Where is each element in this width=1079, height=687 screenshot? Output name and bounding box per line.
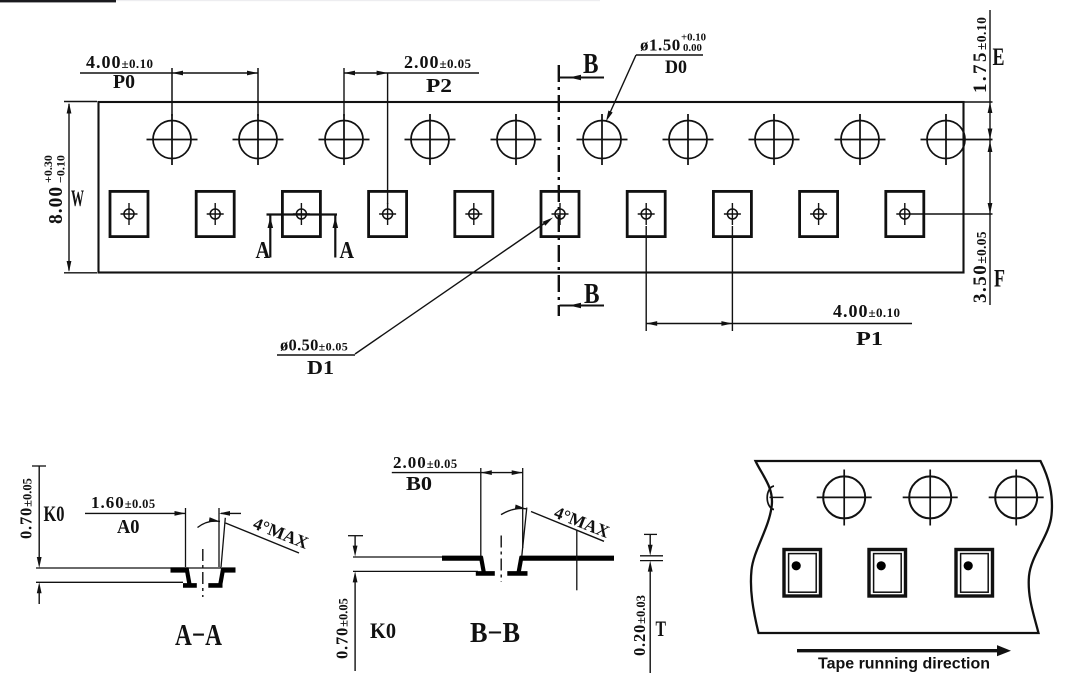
dimension P2 extension lines: [343, 68, 345, 116]
svg-text:F: F: [994, 266, 1005, 293]
callout D0 leader with arrow: [609, 55, 637, 116]
tape sketch torn outline: [751, 461, 1052, 633]
dimension P0 extension lines: [171, 68, 173, 116]
section arrow B top: [560, 77, 605, 79]
svg-text:A: A: [340, 237, 355, 264]
svg-text:−0.10: −0.10: [54, 155, 68, 183]
svg-text:T: T: [656, 616, 667, 641]
tape sketch sprocket hole 1: [817, 470, 872, 526]
section B-B B0 extension lines: [480, 468, 482, 556]
svg-text:0.70±0.05: 0.70±0.05: [333, 598, 352, 659]
tape sketch sprocket hole 2: [903, 470, 958, 526]
section A-A angle leader: [226, 523, 300, 553]
dimension P1 line with arrows: [646, 323, 912, 325]
sprocket hole 3: [319, 114, 370, 165]
section A-A angle arc with arrow: [198, 521, 221, 527]
svg-text:B0: B0: [406, 474, 432, 495]
svg-text:ø0.50±0.05: ø0.50±0.05: [280, 336, 348, 355]
svg-text:Tape running direction: Tape running direction: [818, 656, 990, 673]
sprocket hole 1: [147, 114, 198, 165]
svg-text:4°MAX: 4°MAX: [251, 513, 312, 553]
dimension W text 8.00 +0.30/-0.10 (rotated): [41, 155, 68, 224]
section A-A K0 dimension tick: [32, 465, 46, 467]
section B-B K0 text 0.70+-0.05 (rotated): [333, 598, 352, 659]
sprocket hole 10: [921, 114, 993, 165]
component pocket 2: [196, 191, 234, 236]
dimension P0 line with arrows: [80, 72, 258, 74]
section B-B tape profile (thick): [442, 556, 483, 561]
section A-A text 4 deg MAX: [251, 513, 312, 553]
svg-text:2.00±0.05: 2.00±0.05: [393, 453, 458, 472]
scan artifact bar top-left: [0, 0, 600, 1]
section arrow B bottom: [560, 305, 605, 307]
svg-text:D1: D1: [307, 358, 334, 379]
svg-text:0.00: 0.00: [683, 42, 702, 54]
component pocket 5: [455, 191, 493, 236]
section B-B B0 dimension line with arrows: [392, 472, 523, 474]
section cut line B-B (dashed): [558, 65, 560, 316]
dimension F arrows: [988, 141, 993, 152]
svg-text:4.00±0.10: 4.00±0.10: [833, 301, 900, 321]
svg-text:1.75±0.10: 1.75±0.10: [970, 17, 991, 93]
section A-A K0 dimension line with arrows: [38, 466, 40, 557]
svg-text:K0: K0: [44, 501, 65, 526]
tape sketch pocket 3 with component: [956, 550, 993, 597]
svg-text:A0: A0: [117, 517, 140, 538]
component pocket 6: [541, 191, 579, 236]
section A-A tape profile (thick): [171, 567, 189, 572]
component pocket 1: [110, 191, 148, 236]
section B-B pocket center line: [500, 536, 502, 583]
section B-B tape top surface line: [353, 556, 445, 558]
sprocket hole 5: [491, 114, 542, 165]
tape sketch pocket 2 with component: [869, 550, 906, 597]
dimension F text 3.50+-0.05 (rotated): [970, 231, 991, 303]
callout D0 underline: [636, 54, 703, 56]
section B-B T text 0.20+-0.03 (rotated): [630, 595, 649, 656]
svg-text:B: B: [584, 279, 600, 310]
svg-text:B: B: [583, 49, 599, 80]
svg-text:D0: D0: [665, 57, 687, 78]
section A-A A0 extension lines: [185, 508, 187, 567]
tape sketch sprocket hole 3: [989, 470, 1044, 526]
dimension P2 line with arrows: [344, 72, 479, 74]
svg-text:8.00: 8.00: [46, 186, 67, 224]
section B-B angle arc with arrow: [501, 508, 526, 514]
dimension E-F vertical line: [989, 10, 991, 305]
component pocket 9: [800, 191, 838, 236]
component pocket 4: [369, 191, 407, 236]
dimension E text 1.75+-0.10 (rotated): [970, 17, 991, 93]
section B-B text 4 deg MAX: [552, 502, 613, 542]
sprocket hole 8: [749, 114, 800, 165]
sprocket hole 9: [835, 114, 886, 165]
sprocket hole 2: [233, 114, 284, 165]
section cut marker A-A: [267, 213, 338, 215]
section B-B D1 hole gap in pocket bottom: [495, 570, 508, 578]
section A-A D1 hole gap in pocket bottom: [197, 582, 209, 590]
component pocket 10: [886, 191, 993, 236]
component pocket 3: [282, 191, 320, 236]
svg-text:W: W: [71, 186, 84, 211]
dimension P1 extension lines: [645, 226, 647, 331]
component pocket 7: [627, 191, 665, 236]
dimension E arrows: [988, 102, 993, 113]
section B-B T dimension line with arrows: [649, 534, 651, 545]
svg-text:P2: P2: [426, 76, 452, 97]
section A-A tape top surface line: [36, 567, 221, 569]
svg-text:B−B: B−B: [470, 617, 520, 649]
component pocket 8: [713, 191, 751, 236]
section A-A A0 dimension line with arrows: [85, 512, 186, 514]
dimension W ticks: [64, 101, 97, 103]
svg-text:4.00±0.10: 4.00±0.10: [86, 52, 153, 72]
svg-text:ø1.50: ø1.50: [640, 36, 681, 55]
section B-B K0 dimension line with arrows: [354, 536, 356, 546]
sprocket hole 7: [663, 114, 714, 165]
section B-B K0 dimension tick: [348, 535, 363, 537]
svg-text:A: A: [256, 237, 271, 264]
carrier tape outline (top view): [99, 102, 964, 273]
tape top edge extension to E dimension: [964, 101, 993, 103]
tape running direction arrow: [797, 649, 999, 652]
tape sketch partial sprocket hole at torn edge: [767, 486, 774, 510]
tape sketch pocket 1 with component: [784, 550, 821, 597]
sprocket hole 4: [405, 114, 456, 165]
section A-A K0 text 0.70+-0.05 (rotated): [17, 478, 36, 539]
svg-text:3.50±0.05: 3.50±0.05: [970, 231, 991, 303]
section B-B sprocket hole center line: [576, 530, 578, 591]
sprocket hole 6: [577, 114, 628, 165]
svg-text:A−A: A−A: [175, 617, 222, 652]
section A-A pocket bottom reference line: [36, 581, 183, 583]
svg-text:4°MAX: 4°MAX: [552, 502, 613, 542]
section B-B pocket bottom reference line: [353, 570, 478, 572]
section B-B draft angle line: [522, 508, 527, 556]
svg-text:P0: P0: [113, 72, 135, 93]
dimension W line with arrows: [68, 104, 70, 271]
svg-text:0.20±0.03: 0.20±0.03: [630, 595, 649, 656]
section B-B angle leader: [531, 512, 604, 542]
svg-text:E: E: [993, 44, 1005, 71]
svg-text:2.00±0.05: 2.00±0.05: [404, 52, 471, 72]
callout D1 underline: [277, 354, 355, 356]
callout D1 leader with arrow: [355, 220, 550, 355]
section A-A draft angle line: [221, 518, 225, 568]
svg-text:K0: K0: [370, 618, 396, 643]
section A-A pocket center line: [202, 549, 204, 597]
svg-text:1.60±0.05: 1.60±0.05: [91, 493, 156, 512]
section B-B T dimension ticks: [640, 555, 663, 557]
svg-text:P1: P1: [856, 329, 883, 350]
svg-text:0.70±0.05: 0.70±0.05: [17, 478, 36, 539]
